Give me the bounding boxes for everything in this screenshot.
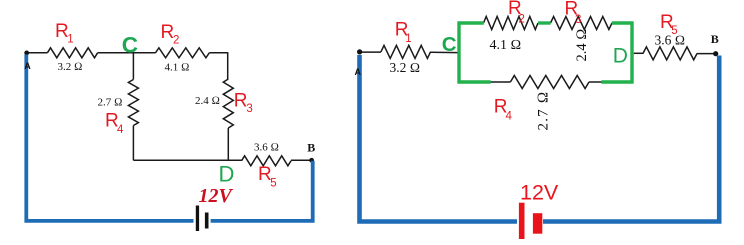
wire: blue loop right circuit (A down, bottom) — [360, 55, 518, 222]
wire: blue bottom right + up to B (left circuit) — [211, 161, 313, 221]
wire: R2 to top-right corner — [209, 52, 227, 54]
green box right edge (node D side) — [630, 22, 633, 84]
battery plate short (left circuit) — [205, 213, 209, 229]
resistor R2 (left circuit) — [156, 48, 210, 58]
svg-text:4: 4 — [117, 124, 124, 136]
svg-text:3: 3 — [246, 103, 252, 115]
resistor R3 (right circuit, on box top) — [551, 17, 613, 30]
node B (right circuit) dot — [713, 51, 718, 56]
svg-text:C: C — [122, 33, 138, 58]
wire: node C vertical to R4 — [132, 53, 134, 80]
svg-text:3.2 Ω: 3.2 Ω — [390, 60, 421, 75]
battery plate long (right circuit, red) — [519, 203, 525, 239]
svg-text:4: 4 — [506, 111, 513, 123]
resistor R4 (left circuit, vertical) — [128, 80, 138, 126]
svg-text:A: A — [24, 61, 31, 71]
battery plate short (right circuit, red) — [533, 213, 542, 234]
wire: R4 to bottom wire — [132, 126, 134, 161]
wire: R3 to bottom wire — [227, 128, 229, 160]
wire: blue loop left circuit (A down, bottom to battery) — [26, 55, 193, 221]
svg-text:2.7 Ω: 2.7 Ω — [98, 96, 123, 108]
wire: A to R1 (top left) — [27, 52, 47, 54]
wire: node D to R5 — [634, 52, 644, 54]
resistor R5 (left circuit) — [242, 156, 292, 166]
resistor R3 (left circuit, vertical) — [223, 79, 233, 128]
green box top edge segment 1 — [458, 21, 484, 24]
svg-text:3: 3 — [575, 14, 581, 26]
resistor R5 (right circuit) — [643, 47, 697, 60]
svg-text:4.1 Ω: 4.1 Ω — [490, 38, 522, 53]
battery plate long (left circuit) — [196, 206, 199, 232]
svg-text:3.6 Ω: 3.6 Ω — [655, 32, 686, 47]
green box bottom edge segment 2 — [601, 80, 633, 83]
green box bottom edge segment 1 — [458, 80, 491, 83]
svg-text:C: C — [442, 33, 457, 56]
svg-text:D: D — [219, 161, 235, 186]
green box top edge segment 3 — [612, 21, 634, 24]
svg-text:1: 1 — [405, 33, 411, 45]
wire: bottom horizontal (R4 corner to R5) — [133, 159, 241, 161]
svg-text:A: A — [355, 67, 362, 77]
svg-text:2: 2 — [173, 35, 179, 47]
svg-text:3.2 Ω: 3.2 Ω — [58, 61, 83, 73]
green box top edge segment 2 (between R2 and R3) — [538, 21, 551, 24]
svg-text:2: 2 — [519, 14, 525, 26]
resistor R4 (right circuit, on box bottom) — [510, 76, 589, 89]
resistor R1 (right circuit) — [381, 45, 431, 58]
svg-text:2.4 Ω: 2.4 Ω — [195, 95, 220, 107]
svg-text:12V: 12V — [520, 181, 559, 205]
svg-text:2.7 Ω: 2.7 Ω — [536, 90, 552, 130]
svg-text:4.1 Ω: 4.1 Ω — [165, 61, 190, 73]
wire: R1 to node C / green box — [430, 51, 458, 53]
wire: A to R1 (right circuit) — [360, 51, 381, 53]
green box left edge (node C side) — [457, 22, 460, 84]
svg-text:5: 5 — [270, 178, 276, 190]
node B (left circuit) dot — [309, 158, 314, 163]
resistor R2 (right circuit, on box top) — [484, 17, 539, 30]
svg-text:3.6 Ω: 3.6 Ω — [254, 141, 279, 153]
svg-text:1: 1 — [67, 34, 73, 46]
node A (left circuit) dot — [24, 51, 29, 56]
svg-text:B: B — [307, 141, 315, 155]
wire: R1 to node C — [98, 52, 156, 54]
svg-text:2.4 Ω: 2.4 Ω — [574, 29, 590, 62]
svg-text:12V: 12V — [199, 185, 234, 207]
wire: R5 to node B (right circuit) — [697, 53, 714, 55]
svg-text:D: D — [613, 45, 628, 68]
wire: right vertical top (corner to R3) — [227, 52, 229, 79]
parallel-group highlight box (green), segments around R2,R3,R4 — [458, 22, 634, 84]
wire: R4 to box bottom-right stub — [589, 81, 602, 83]
node A (right circuit) dot — [357, 49, 362, 54]
svg-text:B: B — [711, 32, 719, 46]
resistor R1 (left circuit) — [47, 48, 97, 58]
wire: blue bottom right + up to B (right circuit) — [543, 56, 719, 222]
wire: R5 to node B — [291, 159, 312, 161]
wire: box bottom-left stub to R4 — [491, 81, 511, 83]
